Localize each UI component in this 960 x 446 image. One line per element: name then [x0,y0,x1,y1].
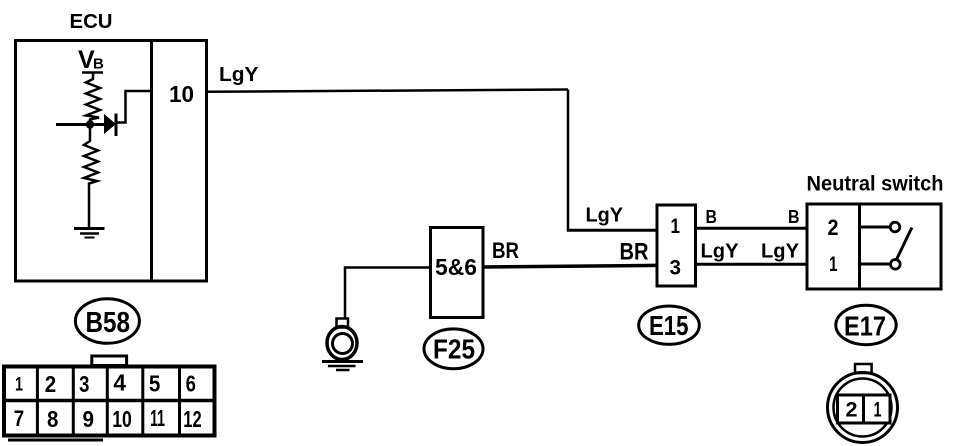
svg-text:12: 12 [183,406,201,432]
wire E15 pin1 to neutral switch pin2 (B) [696,227,808,230]
svg-text:3: 3 [670,257,682,280]
svg-text:B: B [93,56,104,73]
svg-text:11: 11 [150,405,165,431]
B58 outer shell [4,367,215,436]
node A junction dot [86,120,94,128]
connector E15 oval tag [639,306,700,344]
connector E17 face view [828,364,898,443]
svg-text:1: 1 [15,375,23,396]
svg-text:10: 10 [169,81,194,107]
svg-text:1: 1 [671,215,681,238]
svg-text:F25: F25 [433,334,475,365]
svg-text:6: 6 [186,371,196,397]
node VB supply label [78,46,104,74]
switch contact upper [860,222,900,232]
svg-text:8: 8 [47,406,59,432]
svg-text:B: B [706,207,718,227]
svg-text:BR: BR [492,238,519,263]
svg-text:7: 7 [14,406,24,431]
resistor R2 (lower) [84,125,98,228]
ground (ECU internal) [74,229,105,238]
svg-text:10: 10 [112,406,132,432]
svg-text:B58: B58 [86,307,131,339]
neutral switch pin column divider [858,204,861,289]
B58 keying tab [92,356,127,366]
svg-text:9: 9 [83,406,95,432]
VB supply terminal bar [82,71,103,74]
switch contact lower [860,260,901,270]
svg-text:5: 5 [149,371,161,397]
svg-text:BR: BR [620,239,649,266]
ECU box [16,41,207,282]
svg-text:E15: E15 [649,310,689,341]
svg-text:3: 3 [79,371,89,397]
B58 row divider [4,399,215,403]
connector E17 oval tag [836,305,896,344]
B58 shell bottom lip [8,439,103,442]
svg-text:ECU: ECU [70,11,113,33]
wire pin10 to bend (LgY) [207,90,569,92]
E17 pin block [838,395,891,423]
svg-text:E17: E17 [844,311,886,342]
ground bolt terminal (body ground) [322,319,363,371]
connector F25 box [431,228,484,318]
wire vertical drop [567,90,570,231]
connector E15 box [657,205,696,286]
svg-text:2: 2 [45,371,56,397]
svg-text:B: B [788,207,800,227]
E17 pin block divider [862,395,865,423]
diode D1 [104,114,116,137]
switch blade (open) [897,228,912,260]
svg-text:1: 1 [874,399,882,422]
switch S1 neutral switch box [807,204,941,289]
svg-text:LgY: LgY [701,241,740,263]
svg-text:2: 2 [828,215,839,240]
wire E15 pin3 to neutral switch pin1 (LgY) [696,263,808,266]
wire diode cathode to pin 10 [116,91,152,123]
svg-text:LgY: LgY [219,64,259,86]
svg-text:Neutral switch: Neutral switch [807,173,944,196]
svg-text:2: 2 [846,399,858,422]
E17 keying tab [855,364,872,373]
wire F25 to ground bolt [345,268,431,320]
resistor R1 (upper pull-up) [86,73,100,125]
wire into E15 pin 1 [567,229,657,232]
svg-text:LgY: LgY [586,205,624,227]
wire F25 to E15 pin3 (BR) [483,265,657,267]
connector F25 oval tag [424,329,483,369]
connector B58 oval tag [75,299,139,344]
E17 outer ring [828,373,898,443]
svg-text:5&6: 5&6 [435,254,477,280]
wire stub into node A [56,123,105,126]
connector B58 face view [4,356,215,436]
ECU pin column divider [150,41,153,282]
B58 column dividers [36,367,39,436]
svg-text:1: 1 [829,253,838,276]
svg-text:4: 4 [113,370,126,396]
E17 inner ring [834,379,892,437]
svg-text:LgY: LgY [761,241,800,263]
